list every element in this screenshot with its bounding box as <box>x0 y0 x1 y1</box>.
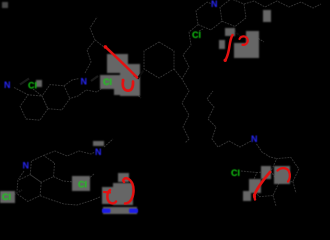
wire to red stroke <box>95 40 104 47</box>
wire Cl-C1 <box>11 190 22 196</box>
black caret near red B <box>237 34 243 39</box>
ring C2 <box>30 155 54 182</box>
wire N3 up-right <box>104 139 113 147</box>
svg-text:Cl: Cl <box>192 30 201 40</box>
wire N1-ring <box>14 88 28 95</box>
chain A up <box>85 17 97 73</box>
NH blob C2 <box>129 209 138 214</box>
red highlight stroke B <box>225 35 232 61</box>
svg-text:Cl: Cl <box>2 192 11 202</box>
wire ring to red B <box>233 28 237 34</box>
wire O to CH3 <box>248 37 264 42</box>
chain C to red circle group <box>40 196 100 205</box>
wire Cl1-ring <box>33 89 42 96</box>
svg-text:N: N <box>251 134 258 144</box>
svg-text:N: N <box>95 147 102 157</box>
red dot A <box>122 79 125 82</box>
dark diagonal over Cl2 box <box>86 174 94 181</box>
red O glyph C right <box>123 178 133 203</box>
ring A1 <box>20 95 48 120</box>
gray jpeg patches C <box>0 141 137 214</box>
red O glyph A (U shape) <box>123 81 133 91</box>
jpeg artifact corner <box>2 2 8 8</box>
wire N-C1 down <box>19 171 25 179</box>
wire below O glyph <box>134 92 141 98</box>
svg-text:Cl: Cl <box>78 180 87 190</box>
svg-text:N: N <box>23 161 30 171</box>
ring C1 <box>17 175 41 202</box>
gray jpeg patches A <box>100 54 140 96</box>
svg-text:Cl: Cl <box>231 168 240 178</box>
wire M-chain <box>174 69 182 79</box>
wire Cl-B <box>199 29 203 31</box>
wire ring to Cl2 <box>54 177 75 182</box>
svg-text:N: N <box>211 0 218 9</box>
wire Cl2 down to ring <box>70 85 106 99</box>
red highlight stroke A <box>105 47 137 78</box>
middle ring M <box>144 42 182 79</box>
svg-text:N: N <box>81 77 88 87</box>
svg-text:Cl: Cl <box>28 81 37 91</box>
red hook D <box>278 168 290 181</box>
ring M <box>144 42 174 78</box>
gray jpeg patches B <box>219 10 271 58</box>
wedge bond near N1 <box>20 79 29 85</box>
NH blob C1 <box>102 209 111 214</box>
red hook B <box>240 36 248 45</box>
red O glyph C left <box>107 190 116 203</box>
red tick C left entry <box>104 191 110 194</box>
red drip D <box>253 195 256 198</box>
wedge bond near N2 <box>91 76 98 81</box>
svg-text:Cl: Cl <box>103 77 112 87</box>
red highlight stroke D <box>255 172 271 195</box>
wire ring-N2 <box>64 79 79 86</box>
chain D up <box>207 91 251 147</box>
black tick A <box>134 71 144 79</box>
gray jpeg patches D <box>243 166 290 201</box>
ring D1 <box>251 171 279 196</box>
svg-text:N: N <box>4 80 11 90</box>
ring A2 <box>42 85 70 110</box>
chain B top right corner <box>244 1 321 8</box>
stub bonds D <box>293 182 296 193</box>
ring B2 <box>220 0 246 27</box>
wire Cl-D <box>241 171 257 173</box>
ring D2 <box>271 157 299 182</box>
ring B1 <box>196 2 222 30</box>
long chain B down <box>182 25 198 143</box>
wire N-D down <box>257 144 277 159</box>
chain C up to N <box>44 151 95 156</box>
